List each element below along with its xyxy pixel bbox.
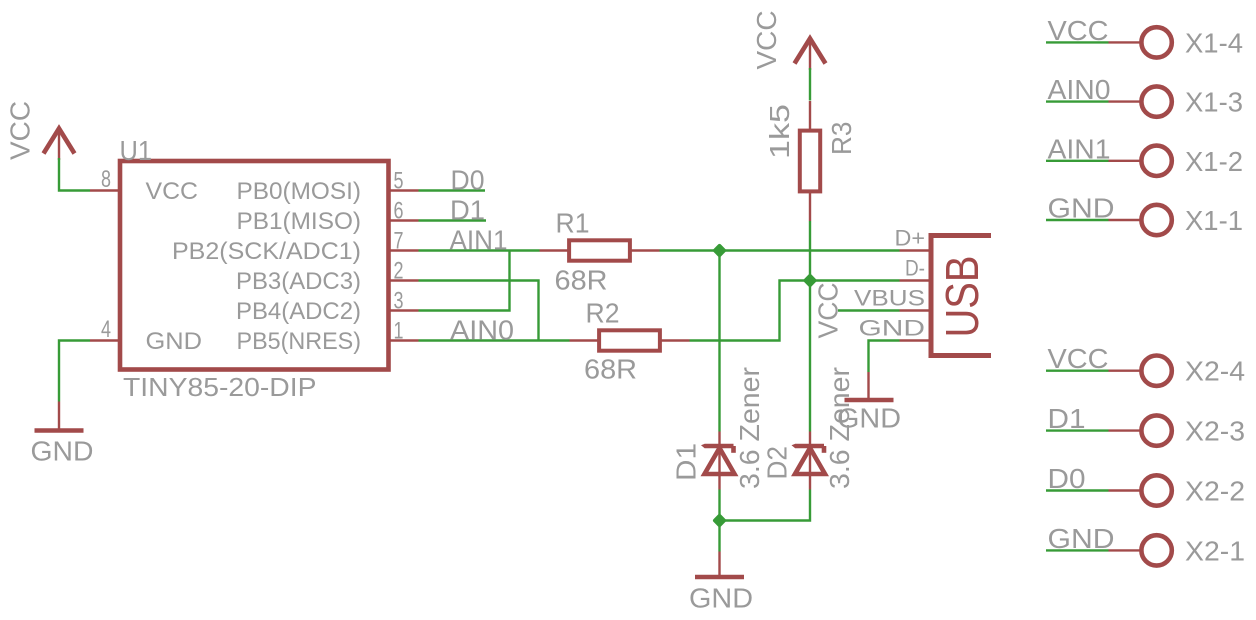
svg-text:PB1(MISO): PB1(MISO) [237, 208, 362, 235]
svg-text:1: 1 [394, 318, 404, 345]
wire net AIN1 (header X1-2) [1046, 160, 1109, 162]
svg-text:X2-2: X2-2 [1185, 476, 1245, 507]
pin lead X2-1 [1109, 549, 1141, 551]
svg-text:GND: GND [689, 583, 753, 614]
svg-text:VBUS: VBUS [854, 286, 925, 311]
pin circle X1-1 [1141, 205, 1171, 235]
diode D2 lead [809, 432, 811, 490]
pin circle X2-4 [1141, 356, 1171, 386]
svg-text:X2-1: X2-1 [1185, 535, 1245, 566]
svg-text:D0: D0 [451, 165, 485, 196]
U1 pin 4 GND stub [90, 339, 118, 341]
wire USB GND pin [869, 341, 900, 373]
svg-text:D0: D0 [1048, 463, 1086, 494]
svg-text:X1-1: X1-1 [1185, 205, 1243, 236]
wire D+ net R1 to USB [660, 249, 900, 251]
svg-text:68R: 68R [584, 354, 637, 385]
svg-text:PB3(ADC3): PB3(ADC3) [236, 268, 361, 295]
svg-text:AIN1: AIN1 [1048, 133, 1111, 164]
junction node zener ground [712, 513, 727, 528]
svg-text:2: 2 [394, 258, 404, 285]
pin circle X1-2 [1141, 146, 1171, 176]
wire net D1 (header X2-3) [1046, 429, 1109, 431]
wire net D0 (header X2-2) [1046, 489, 1109, 491]
svg-text:GND: GND [837, 403, 901, 434]
pin lead X2-3 [1109, 429, 1141, 431]
svg-text:D1: D1 [1048, 403, 1086, 434]
diode D1 lead [718, 432, 720, 490]
svg-text:AIN0: AIN0 [450, 315, 514, 346]
svg-text:VCC: VCC [1048, 15, 1109, 46]
svg-text:VCC: VCC [751, 11, 782, 70]
svg-text:5: 5 [394, 168, 404, 195]
pin circle X1-4 [1141, 27, 1171, 57]
GND symbol stem (left) [58, 402, 60, 429]
svg-text:1k5: 1k5 [764, 104, 795, 159]
U1 pin 7 stub [391, 249, 419, 251]
resistor R2 [570, 339, 598, 341]
svg-text:VCC: VCC [146, 178, 199, 205]
pin circle X2-1 [1141, 535, 1171, 565]
svg-text:PB4(ADC2): PB4(ADC2) [236, 298, 361, 325]
U1 pin 6 stub [391, 219, 419, 221]
pin lead X1-1 [1109, 219, 1141, 221]
zener diode D1 [705, 444, 734, 449]
svg-text:PB0(MOSI): PB0(MOSI) [237, 178, 362, 205]
GND symbol stem (USB) [867, 372, 869, 398]
zener diode D2 [795, 444, 824, 449]
pin lead X1-3 [1109, 100, 1141, 102]
svg-text:X2-3: X2-3 [1185, 416, 1245, 447]
resistor R3 [809, 101, 811, 129]
svg-text:VCC: VCC [5, 101, 36, 160]
U1 pin 1 stub [391, 339, 419, 341]
U1 pin 8 VCC stub [90, 189, 118, 191]
U1 pin 2 stub [391, 279, 419, 281]
svg-text:68R: 68R [555, 265, 608, 296]
wire net GND (header X1-1) [1046, 219, 1109, 221]
GND symbol stem (bottom) [718, 552, 720, 576]
svg-text:D+: D+ [895, 226, 926, 251]
svg-text:GND: GND [1048, 193, 1115, 224]
svg-text:GND: GND [859, 316, 926, 341]
wire AIN1 pin7 to R1 [419, 249, 540, 251]
wire AIN1 branch down to pin 3 [419, 251, 510, 311]
svg-text:D1: D1 [671, 443, 702, 481]
wire net D1 [419, 219, 487, 221]
svg-text:X2-4: X2-4 [1185, 356, 1245, 387]
wire R2 to D- corner [690, 281, 900, 341]
wire net GND (header X2-1) [1046, 549, 1109, 551]
svg-text:AIN0: AIN0 [1048, 74, 1111, 105]
svg-text:4: 4 [101, 316, 111, 343]
svg-text:USB: USB [936, 256, 988, 338]
svg-text:6: 6 [394, 198, 404, 225]
svg-text:7: 7 [394, 228, 404, 255]
ground symbol (USB) [845, 398, 894, 403]
ground symbol (left) [35, 428, 84, 433]
wire pin 2 branch [419, 281, 539, 341]
U1 pin 5 stub [391, 189, 419, 191]
power symbol VCC (top-left supply arrow) [44, 129, 75, 154]
svg-text:D-: D- [905, 256, 925, 281]
svg-text:8: 8 [101, 166, 111, 193]
wire net VCC (header X2-4) [1046, 370, 1109, 372]
ground symbol (bottom) [695, 575, 744, 580]
wire net VCC (header X1-4) [1046, 41, 1109, 43]
USB pin stub D+ [900, 249, 929, 251]
svg-text:PB5(NRES): PB5(NRES) [237, 328, 362, 355]
svg-text:R2: R2 [586, 298, 620, 329]
wire net D0 [419, 189, 486, 191]
wire VBUS to VCC [838, 309, 900, 311]
svg-text:D1: D1 [450, 195, 485, 226]
svg-text:X1-3: X1-3 [1185, 87, 1243, 118]
wire D2 to bottom junction [720, 490, 811, 521]
pin lead X1-4 [1109, 41, 1141, 43]
svg-text:U1: U1 [120, 135, 153, 166]
resistor R1 [540, 249, 568, 251]
svg-text:GND: GND [31, 436, 94, 467]
svg-text:X1-4: X1-4 [1185, 27, 1243, 58]
junction node D- / R3 / D2 [803, 273, 818, 288]
pin lead X1-2 [1109, 160, 1141, 162]
pin circle X2-2 [1141, 475, 1171, 505]
wire R3 to D- junction and D2 [809, 221, 811, 432]
svg-text:AIN1: AIN1 [450, 225, 508, 256]
USB pin stub VBUS [900, 309, 929, 311]
wire U1 pin 4 to GND [59, 341, 90, 402]
wire VCC to R3 [809, 68, 811, 101]
pin circle X2-3 [1141, 415, 1171, 445]
wire AIN0 pin1 to R2 [419, 339, 570, 341]
power symbol VCC (above R3) [795, 39, 826, 64]
svg-text:GND: GND [1048, 523, 1115, 554]
wire D+ junction down to D1 [718, 251, 720, 432]
wire D1 to bottom junction [718, 490, 720, 552]
wire net AIN0 (header X1-3) [1046, 100, 1109, 102]
svg-text:D2: D2 [762, 446, 793, 480]
svg-text:TINY85-20-DIP: TINY85-20-DIP [123, 372, 317, 402]
wire VCC arrow to U1 pin 8 [59, 158, 90, 191]
IC U1 TINY85-20-DIP body [120, 161, 389, 370]
svg-text:R1: R1 [556, 208, 590, 239]
svg-text:R3: R3 [826, 122, 857, 156]
svg-text:PB2(SCK/ADC1): PB2(SCK/ADC1) [172, 238, 361, 265]
junction node D+ / D1 [712, 243, 727, 258]
pin lead X2-4 [1109, 370, 1141, 372]
svg-text:3: 3 [394, 288, 404, 315]
pin lead X2-2 [1109, 489, 1141, 491]
USB pin stub GND [900, 339, 929, 341]
connector USB body [931, 236, 991, 356]
svg-text:X1-2: X1-2 [1185, 146, 1243, 177]
svg-text:GND: GND [146, 328, 203, 355]
svg-text:VCC: VCC [1048, 343, 1109, 374]
USB pin stub D- [900, 279, 929, 281]
pin circle X1-3 [1141, 86, 1171, 116]
U1 pin 3 stub [391, 309, 419, 311]
svg-text:3.6 Zener: 3.6 Zener [734, 367, 765, 489]
